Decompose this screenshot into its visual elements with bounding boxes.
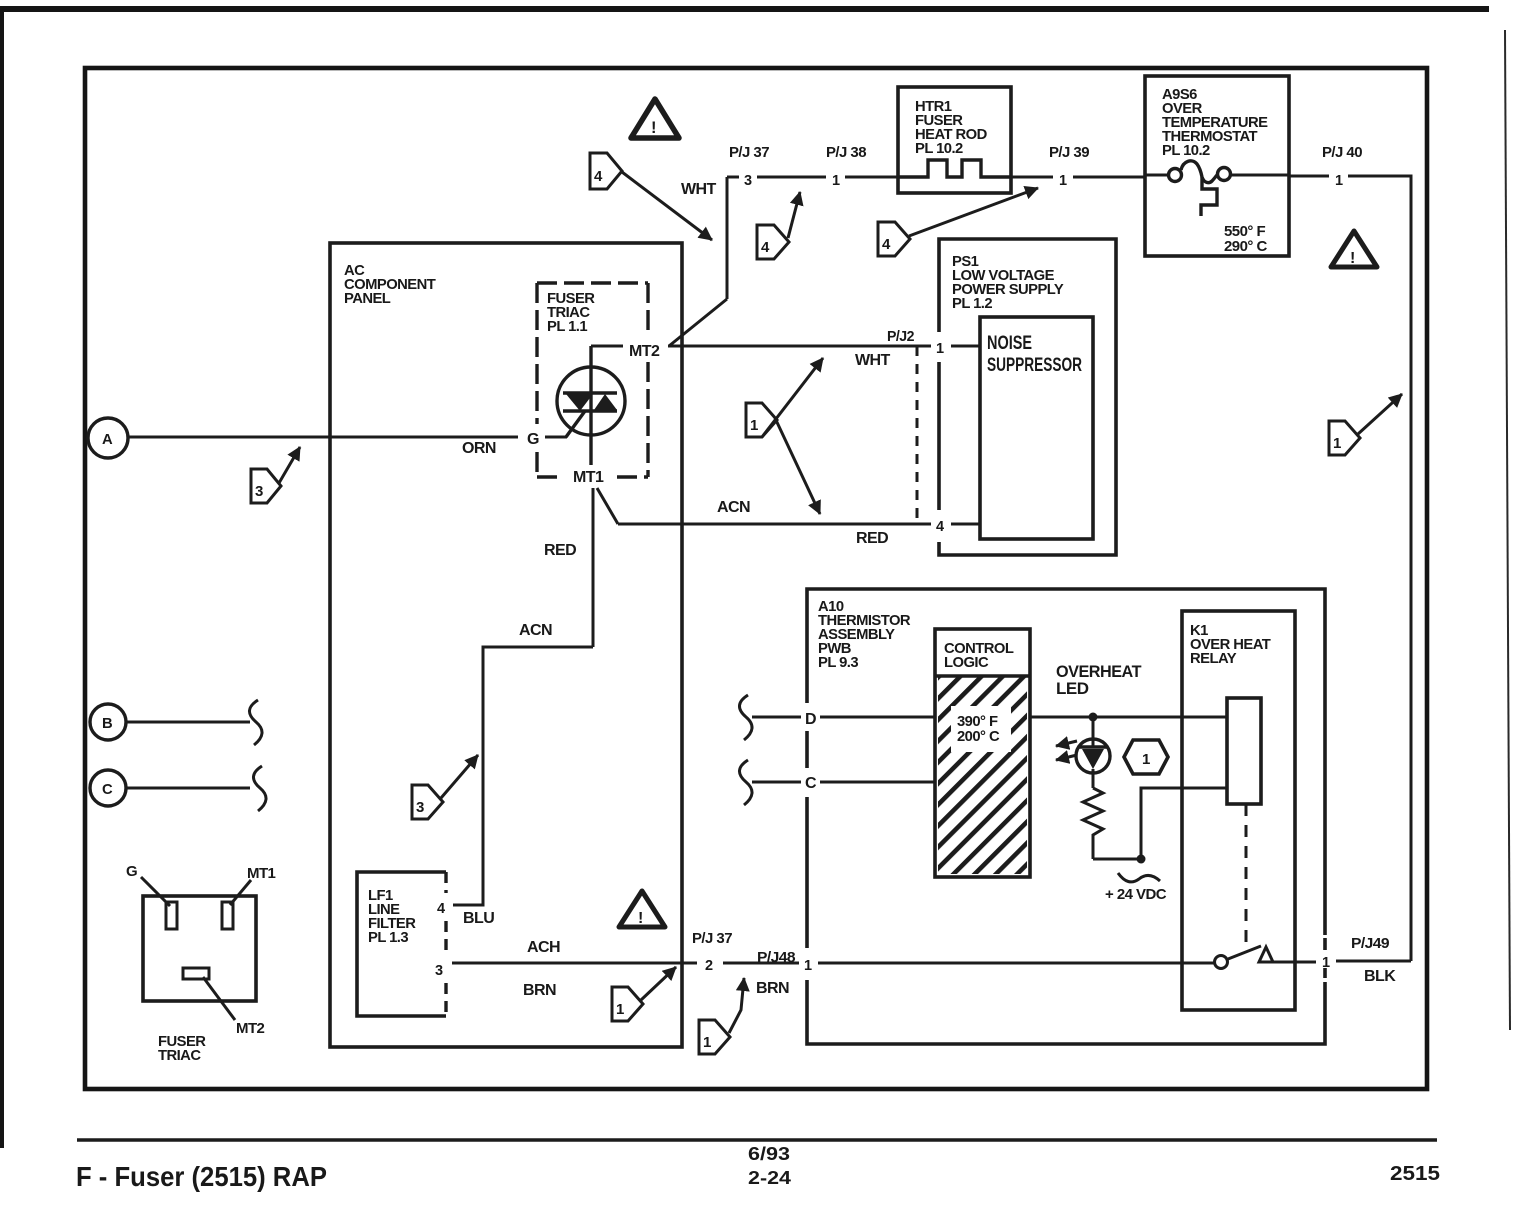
LED light emission arrows: [1056, 741, 1077, 746]
wire C stub: [126, 787, 250, 790]
svg-text:1: 1: [832, 173, 840, 189]
svg-text:3: 3: [435, 963, 443, 979]
svg-text:WHT: WHT: [681, 181, 717, 198]
wire pin2 to P/J48 pin1: [723, 962, 799, 965]
svg-text:1: 1: [616, 1001, 624, 1018]
page left edge bar: [0, 8, 4, 1148]
node B: [90, 704, 126, 740]
svg-text:3: 3: [416, 799, 424, 816]
fuser triac box dashed: [537, 283, 648, 477]
svg-text:P/J 38: P/J 38: [826, 144, 866, 161]
flag 1 to P/J48 wire: [699, 978, 744, 1054]
svg-text:RED: RED: [856, 530, 888, 547]
LED overheat: [1076, 717, 1110, 788]
svg-text:B: B: [102, 716, 113, 732]
wire P/J48 through A10 to switch: [818, 962, 1214, 965]
flag 1 to P/J37 pin2 wire: [612, 967, 676, 1021]
leader MT2: [203, 977, 235, 1020]
warning triangle top: [631, 99, 679, 138]
heater HTR1 box: [898, 87, 1011, 193]
power supply PS1 box: [939, 239, 1116, 555]
wire MT2 to P/J2 pin1 (WHT): [668, 345, 931, 348]
triac Q1 symbol: [557, 346, 625, 465]
wire G stub: [545, 436, 567, 439]
svg-text:BRN: BRN: [756, 980, 789, 997]
break squiggle C2: [739, 760, 752, 805]
wire D stub: [752, 716, 801, 719]
leader G: [141, 877, 170, 906]
wire WHT diagonal to MT2 net: [669, 299, 727, 346]
svg-text:PL 9.3: PL 9.3: [818, 655, 858, 671]
pin MT1 slot: [222, 902, 233, 929]
svg-text:1: 1: [1333, 435, 1341, 452]
break squiggle D: [739, 695, 752, 740]
svg-text:4: 4: [761, 239, 770, 256]
svg-text:BRN: BRN: [523, 982, 556, 999]
flag 3 to ACN wire: [412, 755, 478, 819]
svg-text:290° C: 290° C: [1224, 238, 1267, 255]
svg-text:1: 1: [936, 341, 944, 357]
flag 4 to WHT wire: [590, 153, 712, 240]
wire MT1 to P/J2 pin4 (ACN/RED): [618, 523, 931, 526]
wire P/J40 right and down to P/J49: [1348, 176, 1411, 961]
svg-text:ACN: ACN: [717, 499, 750, 516]
svg-text:PANEL: PANEL: [344, 291, 391, 307]
wire tick pin3 left: [727, 176, 739, 179]
leader MT1: [230, 880, 251, 905]
wire C to control logic: [820, 781, 935, 784]
fuser triac pinout box: [143, 896, 256, 1001]
noise suppressor box: [980, 317, 1093, 539]
svg-text:4: 4: [594, 168, 603, 185]
svg-text:PL 1.2: PL 1.2: [952, 296, 992, 312]
svg-text:D: D: [805, 711, 816, 728]
svg-text:3: 3: [744, 173, 752, 189]
svg-text:1: 1: [1335, 173, 1343, 189]
svg-text:RELAY: RELAY: [1190, 651, 1237, 667]
svg-text:200° C: 200° C: [957, 729, 1000, 745]
svg-text:1: 1: [703, 1034, 711, 1051]
control logic hatch: [938, 676, 1027, 874]
pin MT2 slot: [183, 968, 209, 979]
page right edge line: [1505, 30, 1510, 1030]
svg-text:G: G: [126, 863, 137, 880]
svg-text:P/J48: P/J48: [757, 949, 795, 966]
label 390F 200C: [951, 706, 1011, 752]
svg-text:6/93: 6/93: [748, 1144, 790, 1164]
node C: [90, 770, 126, 806]
svg-text:BLK: BLK: [1364, 968, 1396, 985]
svg-text:P/J 37: P/J 37: [729, 144, 769, 161]
break squiggle C: [253, 766, 266, 811]
svg-text:MT2: MT2: [629, 343, 660, 360]
svg-text:390° F: 390° F: [957, 714, 998, 730]
svg-text:+ 24 VDC: + 24 VDC: [1105, 886, 1167, 903]
svg-text:P/J49: P/J49: [1351, 935, 1389, 952]
flag 4 to P/J38 wire: [757, 192, 800, 259]
svg-text:MT2: MT2: [236, 1020, 265, 1037]
svg-text:P/J 39: P/J 39: [1049, 144, 1089, 161]
wire switch to pin 1 P/J49: [1273, 961, 1316, 964]
svg-text:2-24: 2-24: [748, 1168, 791, 1188]
svg-text:!: !: [1350, 250, 1355, 267]
wire B stub: [126, 721, 250, 724]
wire control logic to relay coil: [1030, 716, 1227, 719]
thermistor assembly A10 box: [807, 589, 1325, 935]
relay coil K1: [1227, 698, 1261, 804]
svg-text:ACN: ACN: [519, 622, 552, 639]
thermostat symbol: [1145, 174, 1168, 177]
svg-text:P/J2: P/J2: [887, 328, 914, 345]
svg-text:1: 1: [804, 958, 812, 974]
svg-text:1: 1: [1059, 173, 1067, 189]
svg-text:MT1: MT1: [573, 469, 604, 486]
node A: [88, 418, 128, 458]
svg-text:NOISE: NOISE: [987, 333, 1032, 354]
wire RED corner to LF1 pin4: [453, 647, 593, 905]
svg-text:PL 10.2: PL 10.2: [915, 141, 963, 157]
thermostat A9S6 box: [1145, 76, 1289, 256]
svg-text:PL 1.3: PL 1.3: [368, 930, 408, 946]
svg-text:PL 1.1: PL 1.1: [547, 319, 587, 335]
svg-text:TRIAC: TRIAC: [158, 1048, 201, 1064]
svg-text:3: 3: [255, 483, 263, 500]
svg-text:WHT: WHT: [855, 352, 891, 369]
wire WHT vertical: [726, 177, 729, 299]
warning triangle bottom: [619, 891, 665, 927]
wire P/J37 pin3 to P/J38: [757, 176, 826, 179]
wire P/J38 to HTR1: [845, 176, 898, 179]
wire C stub: [752, 781, 801, 784]
svg-text:G: G: [527, 431, 539, 448]
svg-text:4: 4: [882, 236, 891, 253]
svg-text:ACH: ACH: [527, 939, 560, 956]
heater element symbol: [898, 160, 1011, 177]
wire P/J39 to A9S6: [1073, 176, 1145, 179]
wire tick pin1 to noise suppressor: [951, 345, 980, 348]
junction dot D-LED: [1089, 713, 1098, 722]
svg-text:2: 2: [705, 958, 713, 974]
flag 1 to P/J40 wire right side: [1329, 394, 1402, 455]
svg-text:4: 4: [437, 901, 445, 917]
footer rule: [77, 1138, 1437, 1141]
flag 1 to P/J2 wires: [746, 358, 823, 514]
svg-text:ORN: ORN: [462, 440, 496, 457]
svg-text:SUPPRESSOR: SUPPRESSOR: [987, 355, 1082, 376]
main frame: [85, 68, 1427, 1089]
flag 3 to ORN wire: [251, 447, 300, 503]
svg-text:2515: 2515: [1390, 1163, 1440, 1185]
control logic box: [935, 629, 1030, 877]
wire resistor to junction: [1093, 858, 1141, 861]
wire MT1 diagonal (RED): [597, 488, 618, 524]
svg-text:LED: LED: [1056, 679, 1089, 698]
AC component panel box: [330, 243, 682, 1047]
svg-text:1: 1: [1322, 955, 1330, 971]
connector P/J2 dashed line: [916, 346, 919, 523]
svg-text:1: 1: [750, 417, 758, 434]
LF1 line filter box: [357, 872, 446, 1016]
svg-text:F - Fuser (2515) RAP: F - Fuser (2515) RAP: [76, 1161, 327, 1192]
wire MT1 down (RED net): [592, 488, 595, 647]
svg-text:A: A: [102, 432, 113, 448]
svg-text:P/J 37: P/J 37: [692, 930, 732, 947]
wire A to G (ORN): [128, 436, 518, 439]
svg-text:!: !: [651, 119, 656, 137]
junction dot +24VDC: [1137, 855, 1146, 864]
page top edge bar: [0, 6, 1489, 12]
flag 4 to P/J39 wire: [878, 188, 1038, 256]
svg-text:RED: RED: [544, 542, 576, 559]
svg-text:BLU: BLU: [463, 910, 494, 927]
break squiggle B: [249, 700, 262, 745]
pin G slot: [166, 902, 177, 929]
svg-text:C: C: [805, 775, 817, 792]
svg-text:1: 1: [1142, 751, 1150, 768]
wire junction up and to relay coil: [1141, 788, 1227, 859]
wire HTR1 to P/J39: [1011, 176, 1053, 179]
break squiggle +24VDC: [1118, 873, 1160, 882]
wire MT2 bracket: [591, 345, 623, 348]
relay actuator dashed line: [1245, 804, 1248, 947]
svg-text:4: 4: [936, 519, 944, 535]
svg-text:PL 10.2: PL 10.2: [1162, 143, 1210, 159]
svg-text:!: !: [638, 910, 643, 927]
flag 1 hexagon overheat: [1124, 740, 1168, 774]
svg-text:P/J 40: P/J 40: [1322, 144, 1362, 161]
warning triangle right: [1331, 231, 1377, 267]
relay contact switch: [1215, 946, 1274, 969]
relay K1 box: [1182, 611, 1295, 1010]
wire pin1 P/J49 to right: [1336, 960, 1411, 963]
resistor R: [1083, 788, 1103, 859]
svg-text:MT1: MT1: [247, 865, 276, 882]
wire tick pin4 to noise suppressor: [951, 523, 980, 526]
svg-text:C: C: [102, 782, 113, 798]
wire A9S6 to P/J40: [1289, 175, 1329, 178]
svg-text:LOGIC: LOGIC: [944, 655, 989, 671]
wire D to control logic: [820, 716, 935, 719]
wire LF1 pin3 to P/J37 pin2 (ACH/BRN): [452, 962, 697, 965]
